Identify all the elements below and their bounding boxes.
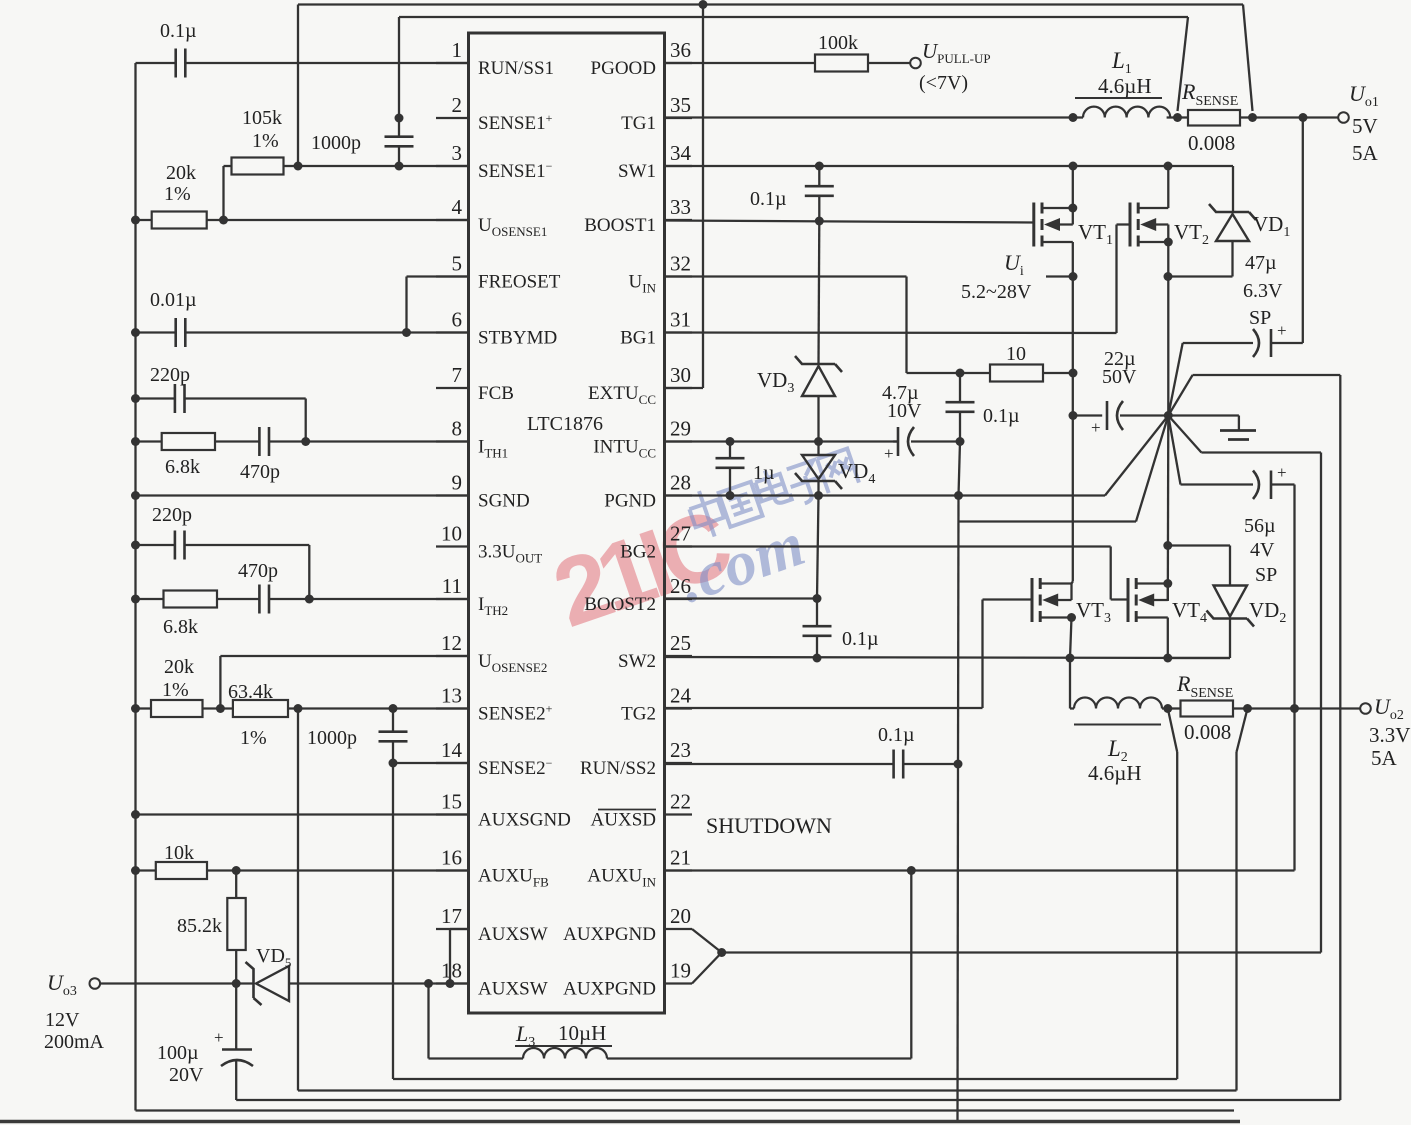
wire BG2 to VT4 gate bbox=[665, 547, 1129, 600]
node RUN/SS2 return junction bbox=[954, 760, 963, 769]
terminal U PULL-UP bbox=[910, 39, 990, 94]
svg-text:27: 27 bbox=[670, 522, 691, 546]
node VT2 source bbox=[1164, 238, 1173, 247]
node pin11 junction bbox=[305, 595, 314, 604]
transistor Q3 VT3 bbox=[1032, 578, 1111, 626]
node pin8 junction bbox=[301, 437, 310, 446]
svg-text:5.2~28V: 5.2~28V bbox=[961, 281, 1032, 303]
svg-text:21: 21 bbox=[670, 846, 691, 870]
svg-text:2: 2 bbox=[452, 93, 463, 117]
node bus junctions bbox=[131, 216, 140, 876]
node Ui rail junctions bbox=[1069, 272, 1078, 420]
pin 28 PGND bbox=[604, 471, 692, 512]
pin 7 FCB bbox=[436, 363, 514, 404]
svg-text:34: 34 bbox=[670, 141, 692, 165]
svg-text:0.1µ: 0.1µ bbox=[878, 724, 915, 746]
resistor R1 105k 1% bbox=[224, 107, 299, 220]
diode VD3 zener bbox=[757, 356, 842, 442]
wire VT2 source rail to star bbox=[1167, 242, 1169, 416]
wire AUXUin pin21 bbox=[665, 485, 1295, 871]
wire VT1 source to Ui rail bbox=[1072, 242, 1074, 277]
capacitor C3 0.01µ (STBYMD) bbox=[136, 289, 469, 347]
resistor R6 63.4k 1% bbox=[203, 681, 469, 749]
pin 18 AUXSW bbox=[436, 959, 548, 1000]
svg-text:10: 10 bbox=[1006, 343, 1026, 365]
svg-text:AUXPGND: AUXPGND bbox=[563, 979, 656, 1000]
svg-text:STBYMD: STBYMD bbox=[478, 328, 557, 349]
svg-text:3.3V: 3.3V bbox=[1369, 723, 1410, 747]
svg-text:SGND: SGND bbox=[478, 491, 530, 512]
diode VD2 zener bbox=[1168, 546, 1287, 659]
pin 19 AUXPGND bbox=[563, 959, 692, 1000]
svg-text:(<7V): (<7V) bbox=[919, 72, 968, 94]
svg-text:200mA: 200mA bbox=[44, 1031, 105, 1053]
svg-text:6.8k: 6.8k bbox=[163, 616, 198, 638]
svg-text:20: 20 bbox=[670, 904, 691, 928]
pin 34 SW1 bbox=[618, 141, 692, 182]
watermark bbox=[541, 441, 860, 648]
svg-text:85.2k: 85.2k bbox=[177, 915, 222, 937]
pin 10 3.3UOUT bbox=[436, 522, 542, 566]
pin 4 UOSENSE1 bbox=[436, 195, 547, 239]
svg-text:0.01µ: 0.01µ bbox=[150, 289, 197, 311]
wire TG2 to VT3 gate bbox=[665, 600, 1033, 709]
svg-text:26: 26 bbox=[670, 574, 691, 598]
svg-text:0.008: 0.008 bbox=[1188, 131, 1235, 155]
inductor L2 4.6µH bbox=[1070, 658, 1168, 785]
pin 11 ITH2 bbox=[436, 574, 508, 618]
pin 31 BG1 bbox=[620, 308, 692, 349]
pin 14 SENSE2 bbox=[436, 738, 553, 779]
node BOOST1 junction bbox=[815, 217, 824, 226]
svg-text:+: + bbox=[884, 444, 894, 463]
wire SENSE1- kelvin (top line A) bbox=[298, 5, 1253, 167]
resistor R10 RSENSE 0.008 bbox=[1178, 79, 1253, 155]
pin 6 STBYMD bbox=[436, 308, 557, 349]
inductor L1 4.6µH bbox=[1073, 48, 1178, 118]
wire pin3 SENSE1- bbox=[298, 165, 469, 167]
wire VT3 source down bbox=[1070, 618, 1072, 659]
wire TG1 bbox=[665, 116, 1074, 118]
node pin18 junctions bbox=[232, 979, 455, 988]
rail x819: VD3 chain bbox=[817, 221, 820, 364]
node SW1 junctions bbox=[815, 162, 1173, 171]
svg-text:1%: 1% bbox=[164, 183, 191, 205]
node 10-ohm left junction bbox=[956, 369, 965, 378]
svg-text:100k: 100k bbox=[818, 32, 858, 54]
svg-text:1%: 1% bbox=[240, 727, 267, 749]
pin 24 TG2 bbox=[621, 684, 692, 725]
svg-text:4.6µH: 4.6µH bbox=[1088, 761, 1142, 785]
svg-text:SENSE2−: SENSE2− bbox=[478, 756, 553, 779]
svg-text:25: 25 bbox=[670, 631, 691, 655]
diode VD1 zener bbox=[1168, 166, 1290, 277]
svg-text:SP: SP bbox=[1249, 307, 1271, 329]
svg-text:18: 18 bbox=[441, 959, 462, 983]
svg-text:RUN/SS1: RUN/SS1 bbox=[478, 58, 554, 79]
svg-text:BG2: BG2 bbox=[620, 542, 656, 563]
wire SENSE2- kelvin down bbox=[393, 763, 1177, 1079]
wire pin17 AUXSW bbox=[450, 929, 469, 984]
svg-text:20k: 20k bbox=[166, 162, 196, 184]
svg-text:220p: 220p bbox=[152, 504, 192, 526]
wire SENSE2- kelvin slant bbox=[1237, 709, 1248, 1091]
capacitor C7 470p bbox=[217, 560, 469, 614]
svg-text:24: 24 bbox=[670, 684, 692, 708]
wire pin9 SGND bbox=[136, 494, 469, 496]
svg-text:50V: 50V bbox=[1102, 366, 1137, 388]
svg-text:5V: 5V bbox=[1352, 114, 1378, 138]
node AUXUin junction bbox=[907, 866, 916, 875]
pin 12 UOSENSE2 bbox=[436, 631, 547, 675]
svg-text:8: 8 bbox=[452, 417, 463, 441]
svg-text:AUXSW: AUXSW bbox=[478, 979, 548, 1000]
capacitor C5 470p bbox=[215, 427, 469, 483]
pin 8 ITH1 bbox=[436, 417, 508, 461]
svg-text:10: 10 bbox=[441, 522, 462, 546]
pin 3 SENSE1 bbox=[436, 141, 553, 182]
resistor R2 20k 1% bbox=[136, 162, 469, 229]
svg-text:AUXSD: AUXSD bbox=[591, 810, 656, 831]
svg-text:12V: 12V bbox=[45, 1009, 80, 1031]
terminal Ui 5.2~28V input bbox=[961, 250, 1073, 303]
transistor Q1 VT1 bbox=[1034, 203, 1113, 249]
svg-text:20V: 20V bbox=[169, 1064, 204, 1086]
resistor R8 85.2k bbox=[177, 871, 246, 984]
capacitor C9 100µ 20V bbox=[157, 984, 253, 1101]
node pin13 junctions bbox=[216, 704, 398, 713]
pin 33 BOOST1 bbox=[584, 195, 692, 236]
pin 27 BG2 bbox=[620, 522, 692, 563]
diode VD5 zener bbox=[236, 945, 468, 1005]
node pin14 junction bbox=[389, 759, 398, 768]
wire SENSE2+ kelvin down bbox=[298, 709, 1237, 1091]
node VD1 anode row bbox=[1164, 272, 1173, 281]
node pin16 junction bbox=[232, 866, 241, 875]
svg-text:AUXSW: AUXSW bbox=[478, 924, 548, 945]
resistor R9 100k (PGOOD pullup) bbox=[665, 32, 911, 72]
pin 21 AUXUIN bbox=[587, 846, 692, 890]
node pin3 junctions bbox=[294, 162, 404, 171]
svg-text:56µ: 56µ bbox=[1244, 515, 1276, 537]
capacitor C1 0.1µ (RUN/SS1) bbox=[136, 20, 469, 78]
wire star to 47µ / Uo1 bbox=[1168, 118, 1303, 416]
svg-text:33: 33 bbox=[670, 195, 691, 219]
svg-text:5: 5 bbox=[452, 252, 463, 276]
wire star down to VT4/VD2 bbox=[1167, 416, 1170, 602]
transistor Q2 VT2 bbox=[1130, 203, 1209, 249]
pin 32 UIN bbox=[629, 252, 692, 296]
node star ground point bbox=[1164, 411, 1173, 420]
resistor R7 10k bbox=[136, 842, 469, 879]
pin 17 AUXSW bbox=[436, 904, 548, 945]
wire BOOST1 to VT1 gate bbox=[665, 221, 1034, 223]
capacitor C13 4.7µ 10V bbox=[882, 382, 960, 463]
wire UIN pin32 bbox=[665, 277, 961, 374]
wire VT4 source down bbox=[1167, 618, 1169, 659]
wire pin14 SENSE2- bbox=[393, 762, 469, 764]
node BOOST2 junction bbox=[813, 594, 822, 603]
pin 35 TG1 bbox=[621, 93, 692, 134]
diode VD4 zener bbox=[795, 442, 875, 496]
wire PGND pin28 bbox=[665, 416, 1169, 496]
resistor R4 6.8k bbox=[136, 591, 218, 639]
svg-text:FCB: FCB bbox=[478, 383, 514, 404]
svg-text:SHUTDOWN: SHUTDOWN bbox=[706, 813, 832, 838]
svg-text:BOOST1: BOOST1 bbox=[584, 215, 656, 236]
wire left SGND bus bbox=[136, 63, 1235, 1111]
svg-text:AUXPGND: AUXPGND bbox=[563, 924, 656, 945]
svg-text:5A: 5A bbox=[1371, 746, 1398, 770]
wire SENSE2+ kelvin slant bbox=[1168, 709, 1177, 1080]
svg-text:220p: 220p bbox=[150, 364, 190, 386]
svg-text:13: 13 bbox=[441, 684, 462, 708]
wire pin15 AUXSGND bbox=[136, 813, 469, 815]
node pin4 junction bbox=[219, 216, 228, 225]
pin 36 PGOOD bbox=[591, 38, 692, 79]
wire SW1 bbox=[665, 165, 1234, 167]
capacitor C17 0.1µ (RUN/SS2) bbox=[665, 724, 959, 779]
wire Ui rail down to VT3 bbox=[1072, 277, 1074, 582]
node INTUcc junctions bbox=[726, 437, 965, 446]
capacitor C4 220p (ITH1) bbox=[136, 364, 306, 442]
svg-text:+: + bbox=[214, 1028, 224, 1047]
svg-text:SW1: SW1 bbox=[618, 161, 656, 182]
capacitor C10 0.1µ (BOOST1) bbox=[750, 166, 834, 221]
capacitor C12 1µ bbox=[716, 442, 775, 496]
node VD2 feed junction bbox=[1163, 541, 1172, 550]
svg-text:4V: 4V bbox=[1250, 539, 1275, 561]
svg-text:23: 23 bbox=[670, 738, 691, 762]
svg-text:4: 4 bbox=[452, 195, 463, 219]
wire SENSE1+ kelvin (top line B) bbox=[399, 17, 1188, 118]
pin 23 RUN/SS2 bbox=[580, 738, 692, 779]
wire to VD2 bbox=[1168, 544, 1230, 546]
svg-text:10µH: 10µH bbox=[558, 1021, 606, 1045]
capacitor C2 1000p (SENSE1) bbox=[311, 118, 414, 166]
svg-text:31: 31 bbox=[670, 308, 691, 332]
pin 1 RUN/SS1 bbox=[436, 38, 554, 79]
svg-text:17: 17 bbox=[441, 904, 462, 928]
wire BG1 to VT2 gate bbox=[665, 225, 1131, 334]
svg-text:29: 29 bbox=[670, 417, 691, 441]
svg-text:35: 35 bbox=[670, 93, 691, 117]
node VT4 drain bbox=[1163, 579, 1172, 588]
pin 16 AUXUFB bbox=[436, 846, 549, 890]
svg-text:SW2: SW2 bbox=[618, 651, 656, 672]
svg-text:0.1µ: 0.1µ bbox=[750, 188, 787, 210]
ground symbol bbox=[1168, 416, 1256, 440]
svg-text:0.1µ: 0.1µ bbox=[983, 405, 1020, 427]
node VT3 source bbox=[1067, 613, 1076, 622]
pin 15 AUXSGND bbox=[436, 790, 571, 831]
svg-text:470p: 470p bbox=[240, 461, 280, 483]
node AUXPGND merge bbox=[717, 948, 726, 957]
wire VT3 drain up (Ui rail) bbox=[1072, 582, 1073, 584]
pin 22 AUXSD bbox=[591, 790, 692, 831]
node pin2 junction bbox=[395, 114, 404, 123]
svg-text:1µ: 1µ bbox=[753, 462, 775, 484]
svg-text:TG2: TG2 bbox=[621, 704, 656, 725]
svg-text:1: 1 bbox=[452, 38, 463, 62]
svg-text:15: 15 bbox=[441, 790, 462, 814]
svg-text:1%: 1% bbox=[162, 679, 189, 701]
svg-text:1000p: 1000p bbox=[311, 132, 361, 154]
svg-text:0.008: 0.008 bbox=[1184, 720, 1231, 744]
svg-text:28: 28 bbox=[670, 471, 691, 495]
svg-text:0.1µ: 0.1µ bbox=[160, 20, 197, 42]
svg-text:32: 32 bbox=[670, 252, 691, 276]
terminal Uo3 bbox=[44, 970, 236, 1053]
capacitor C6 220p (ITH2) bbox=[136, 504, 310, 599]
wire SW2 pin25 bbox=[665, 657, 1231, 658]
svg-text:47µ: 47µ bbox=[1245, 252, 1277, 274]
resistor R12 RSENSE2 0.008 bbox=[1168, 671, 1248, 744]
svg-text:36: 36 bbox=[670, 38, 691, 62]
node RSENSE junctions bbox=[1173, 113, 1308, 122]
svg-text:PGND: PGND bbox=[604, 491, 656, 512]
IC U1 LTC1876 body bbox=[469, 33, 665, 1013]
svg-text:4.6µH: 4.6µH bbox=[1098, 74, 1152, 98]
pin 2 SENSE1 bbox=[436, 93, 553, 134]
wire AUXPGND pins 19/20 bbox=[692, 929, 1321, 984]
rail x959: 0.1µ + RUN/SS2 return bbox=[946, 373, 1020, 1121]
svg-text:BOOST2: BOOST2 bbox=[584, 594, 656, 615]
svg-text:22: 22 bbox=[670, 790, 691, 814]
svg-text:FREOSET: FREOSET bbox=[478, 272, 561, 293]
svg-text:9: 9 bbox=[452, 471, 463, 495]
node RSENSE2 junctions bbox=[1163, 704, 1299, 713]
svg-text:14: 14 bbox=[441, 738, 463, 762]
wire star to bottom return bbox=[236, 375, 1340, 1100]
svg-text:30: 30 bbox=[670, 363, 691, 387]
svg-text:11: 11 bbox=[442, 574, 462, 598]
svg-text:16: 16 bbox=[441, 846, 462, 870]
svg-text:1%: 1% bbox=[252, 130, 279, 152]
svg-text:0.1µ: 0.1µ bbox=[842, 628, 879, 650]
node pin6 junction bbox=[402, 328, 411, 337]
pin 9 SGND bbox=[436, 471, 530, 512]
svg-text:SENSE1+: SENSE1+ bbox=[478, 111, 553, 134]
pin 25 SW2 bbox=[618, 631, 692, 672]
pin 13 SENSE2 bbox=[436, 684, 553, 725]
svg-text:SENSE2+: SENSE2+ bbox=[478, 702, 553, 725]
wire VT1 drain to SW1 bbox=[1072, 166, 1074, 208]
svg-text:5A: 5A bbox=[1352, 141, 1379, 165]
svg-text:PGOOD: PGOOD bbox=[591, 58, 656, 79]
transistor Q4 VT4 bbox=[1128, 578, 1207, 626]
svg-text:6: 6 bbox=[452, 308, 463, 332]
wire BOOST2 pin26 bbox=[665, 597, 818, 599]
svg-text:470p: 470p bbox=[238, 560, 278, 582]
svg-text:RUN/SS2: RUN/SS2 bbox=[580, 758, 656, 779]
capacitor C11 47µ 6.3V SP bbox=[1243, 252, 1283, 329]
svg-text:+: + bbox=[1277, 321, 1287, 340]
pin 30 EXTUCC bbox=[588, 363, 692, 407]
wire EXTUcc pin30 to line A bbox=[665, 5, 704, 389]
svg-text:LTC1876: LTC1876 bbox=[527, 413, 603, 435]
resistor R5 20k 1% bbox=[136, 656, 203, 717]
svg-text:105k: 105k bbox=[242, 107, 282, 129]
inductor L3 10µH bbox=[429, 871, 912, 1059]
capacitor C16 0.1µ (BOOST2) bbox=[803, 496, 879, 659]
svg-text:12: 12 bbox=[441, 631, 462, 655]
svg-text:7: 7 bbox=[452, 363, 463, 387]
resistor R3 6.8k bbox=[136, 433, 216, 478]
wire star to x959 rail bbox=[959, 416, 1168, 522]
wire pin5 FREOSET bbox=[407, 277, 469, 333]
svg-text:6.8k: 6.8k bbox=[165, 456, 200, 478]
pin 26 BOOST2 bbox=[584, 574, 692, 615]
svg-text:+: + bbox=[1277, 463, 1287, 482]
svg-text:100µ: 100µ bbox=[157, 1042, 199, 1064]
svg-text:TG1: TG1 bbox=[621, 113, 656, 134]
terminal Uo2 3.3V 5A bbox=[1360, 694, 1410, 770]
wire Uo2 output bbox=[1248, 707, 1361, 709]
node PGND junctions bbox=[726, 491, 964, 500]
svg-text:63.4k: 63.4k bbox=[228, 681, 273, 703]
svg-text:3: 3 bbox=[452, 141, 463, 165]
svg-text:6.3V: 6.3V bbox=[1243, 280, 1283, 302]
svg-text:19: 19 bbox=[670, 959, 691, 983]
svg-text:+: + bbox=[1091, 418, 1101, 437]
svg-text:AUXSGND: AUXSGND bbox=[478, 810, 571, 831]
svg-text:SP: SP bbox=[1255, 564, 1277, 586]
pin 5 FREOSET bbox=[436, 252, 561, 293]
pin 29 INTUCC bbox=[593, 417, 692, 461]
wire bottom dark edge bbox=[0, 1120, 1240, 1124]
svg-text:10k: 10k bbox=[164, 842, 194, 864]
wire INTUcc pin29 bbox=[665, 440, 899, 442]
capacitor C15 56µ 4V SP bbox=[1168, 416, 1294, 587]
capacitor C8 1000p (SENSE2) bbox=[307, 709, 408, 764]
svg-text:SENSE1−: SENSE1− bbox=[478, 159, 553, 182]
wire Uo1 output bbox=[1253, 116, 1339, 118]
wire star to AUXPGND return bbox=[1168, 416, 1321, 953]
svg-text:BG1: BG1 bbox=[620, 328, 656, 349]
wire VT2 drain to SW1 bbox=[1167, 166, 1169, 208]
terminal Uo1 5V 5A bbox=[1338, 81, 1379, 165]
resistor R11 10 bbox=[960, 343, 1073, 382]
wire pin12 UOSENSE2 bbox=[220, 656, 468, 709]
pin 20 AUXPGND bbox=[563, 904, 692, 945]
svg-text:1000p: 1000p bbox=[307, 727, 357, 749]
node L1 left junction bbox=[1069, 113, 1078, 122]
node SW2 junctions bbox=[813, 654, 1173, 663]
capacitor C14 22µ 50V bbox=[1073, 348, 1168, 437]
node VT1 drain bbox=[1068, 204, 1077, 213]
svg-text:20k: 20k bbox=[164, 656, 194, 678]
node EXTUcc tap on line A bbox=[699, 0, 708, 9]
svg-text:10V: 10V bbox=[887, 400, 922, 422]
